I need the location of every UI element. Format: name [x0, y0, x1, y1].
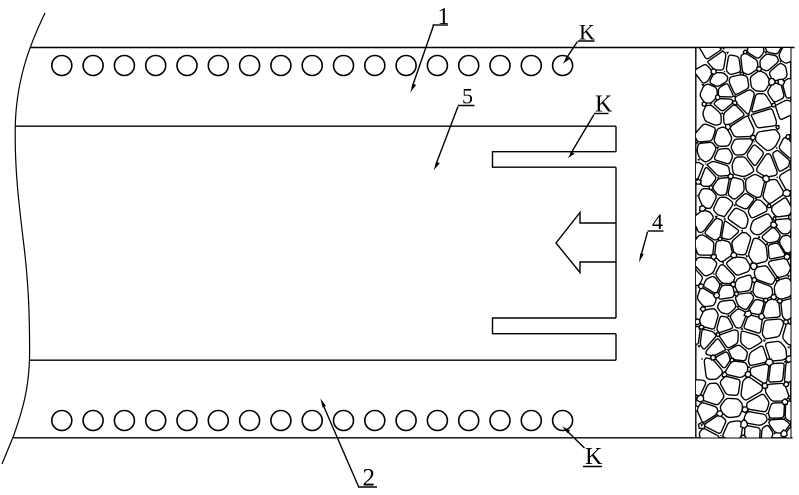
leader line for label 2: [320, 398, 358, 486]
arrow 4 (advance direction arrow, pointing left): [556, 213, 616, 273]
top slot K (upper kerf): [493, 152, 617, 168]
underline of label 5: [458, 105, 475, 107]
top border line (roadway roof outline): [31, 47, 795, 49]
underline of top label K: [578, 40, 595, 42]
top borehole row (17 circles, element 1/K): [52, 56, 573, 76]
leader line for label 4: [639, 232, 648, 263]
inner bottom line (bottom of middle section): [30, 359, 616, 361]
leader line for label 1: [410, 26, 433, 93]
leader line for bottom label K: [562, 426, 584, 448]
underline of label 2: [358, 486, 377, 488]
inner top line (top of middle section): [15, 125, 616, 127]
gob rock band left border: [695, 48, 697, 438]
underline of middle label K: [594, 113, 609, 115]
bottom borehole row (17 circles, element 2/K): [52, 411, 573, 431]
gob rock fill (caved waste rock texture): [672, 24, 799, 452]
underline of label 4: [648, 230, 664, 232]
bottom slot K (lower kerf): [493, 318, 617, 334]
svg-text:4: 4: [652, 209, 663, 234]
svg-text:5: 5: [462, 84, 473, 109]
support structure right edge (vertical, x=616): [615, 126, 617, 360]
underline of label 1: [433, 24, 449, 26]
leader line for top label K: [563, 42, 578, 64]
bottom border line (roadway floor outline): [13, 437, 793, 439]
leader line for middle label K: [568, 115, 594, 159]
svg-text:1: 1: [438, 4, 450, 30]
gob rock band right border: [790, 48, 792, 438]
left break line (broken edge of roadway): [2, 13, 45, 464]
leader line for label 5: [434, 107, 459, 171]
underline of bottom label K: [583, 466, 602, 468]
